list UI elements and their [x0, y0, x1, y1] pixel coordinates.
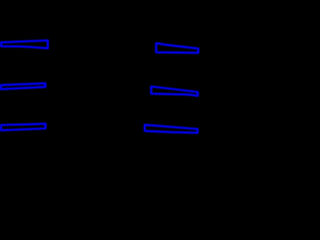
- slat 1 (top-left fin, twisted outline): [1, 40, 48, 48]
- slat 2 (middle-left fin): [1, 83, 45, 89]
- slat 3 (bottom-left fin): [1, 124, 46, 131]
- slat 4 (top-right fin): [156, 43, 198, 53]
- slat 5 (middle-right fin): [151, 87, 198, 96]
- slat 6 (bottom-right fin): [145, 125, 198, 133]
